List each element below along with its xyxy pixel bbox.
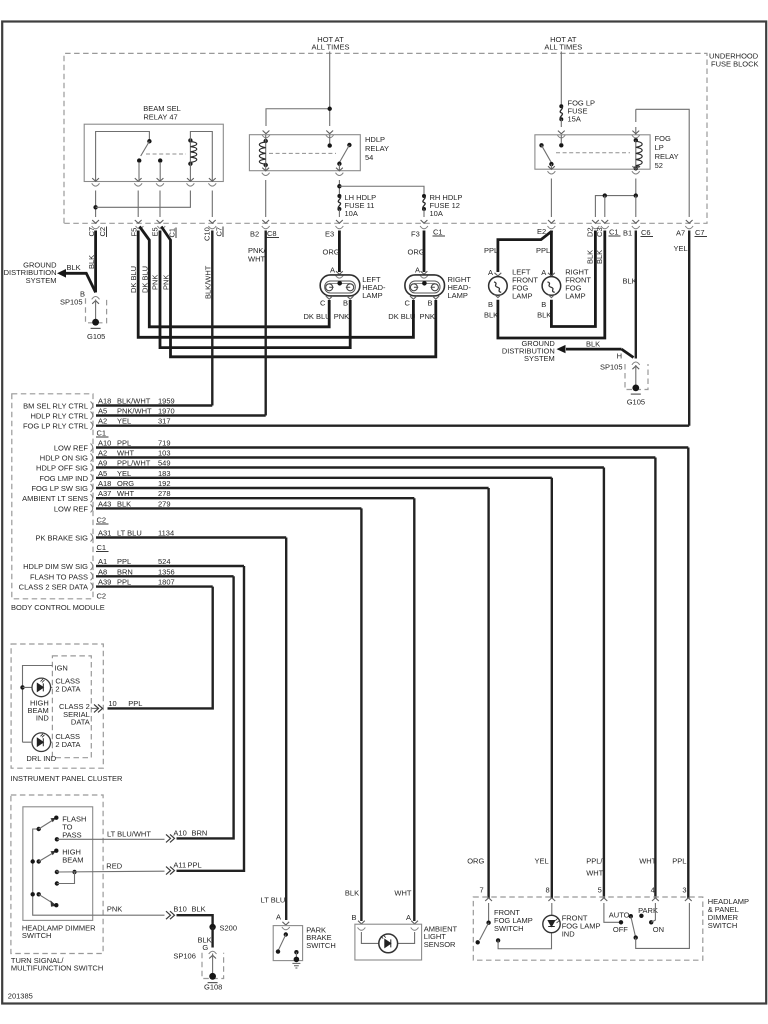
wire BLK G from S200 to ground G108 bbox=[211, 927, 213, 948]
svg-text:1970: 1970 bbox=[158, 407, 175, 416]
svg-text:HDLP OFF SIG: HDLP OFF SIG bbox=[36, 464, 88, 473]
svg-text:C1: C1 bbox=[609, 228, 619, 237]
svg-text:A7: A7 bbox=[676, 229, 685, 238]
wire BLK/WHT from C10/C7 to BCM A18 bbox=[211, 231, 213, 406]
fog switch output contact to indicator bbox=[496, 938, 500, 942]
dimmer flash-to-pass contact and arm bbox=[39, 820, 54, 830]
connector pin C10 / C7 labels (rotated) bbox=[203, 227, 224, 242]
svg-text:BLK: BLK bbox=[595, 250, 604, 264]
svg-text:YEL: YEL bbox=[535, 857, 549, 866]
BCM row A1 PPL 524 bbox=[96, 565, 244, 567]
wire PPL from E2 to both fog lamps bbox=[498, 231, 552, 273]
wire pin2 to connector F5 bbox=[137, 191, 139, 218]
wire PPL from BCM A39 to instrument cluster class 2 serial data bbox=[108, 587, 213, 709]
relay: FOG LP RELAY 52 bbox=[535, 135, 650, 169]
svg-text:A10: A10 bbox=[98, 439, 111, 448]
svg-text:BLK: BLK bbox=[117, 499, 131, 508]
svg-text:LT BLU/WHT: LT BLU/WHT bbox=[107, 830, 151, 839]
hdlp relay bottom pin sockets bbox=[262, 168, 269, 171]
svg-text:C2: C2 bbox=[98, 227, 107, 237]
svg-text:15A: 15A bbox=[568, 115, 581, 124]
beam sel relay coil riser to pin5 bbox=[190, 132, 212, 182]
svg-text:WHT: WHT bbox=[117, 489, 134, 498]
fog relay coil bbox=[634, 138, 638, 142]
svg-text:A: A bbox=[541, 268, 546, 277]
BCM signal name labels bbox=[19, 402, 89, 592]
svg-text:SENSOR: SENSOR bbox=[424, 940, 456, 949]
wire pin4 ground tie bbox=[96, 191, 191, 208]
svg-text:BLK/WHT: BLK/WHT bbox=[204, 265, 213, 299]
svg-text:ORG: ORG bbox=[323, 248, 340, 257]
svg-text:RELAY: RELAY bbox=[655, 152, 679, 161]
svg-text:DRL IND: DRL IND bbox=[26, 754, 56, 763]
svg-text:AMBIENT LT SENS: AMBIENT LT SENS bbox=[22, 494, 88, 503]
svg-text:B2: B2 bbox=[250, 230, 259, 239]
switch: FRONT FOG LAMP SWITCH bbox=[488, 903, 490, 922]
wire fuse 11 to connector E3 bbox=[338, 209, 340, 217]
BCM row A2 WHT 103 bbox=[96, 456, 655, 458]
svg-text:FOG LP RLY CTRL: FOG LP RLY CTRL bbox=[23, 422, 88, 431]
headlamp switch arm and feed from pin 3 bbox=[631, 916, 636, 937]
svg-text:192: 192 bbox=[158, 479, 171, 488]
svg-text:D2: D2 bbox=[586, 227, 595, 237]
fog relay dashed link bbox=[556, 152, 630, 154]
dimmer switch internal rail bbox=[33, 829, 93, 915]
svg-text:A2: A2 bbox=[98, 449, 107, 458]
svg-text:FLASH TO PASS: FLASH TO PASS bbox=[30, 572, 88, 581]
svg-text:FOG LP SW SIG: FOG LP SW SIG bbox=[31, 484, 88, 493]
wire PNK/WHT from B2/C8 to BCM A5 bbox=[265, 231, 267, 416]
svg-text:E3: E3 bbox=[325, 230, 334, 239]
svg-text:BLK/WHT: BLK/WHT bbox=[117, 397, 151, 406]
BCM row A18 BLK/WHT 1959 bbox=[96, 404, 212, 406]
svg-text:A: A bbox=[488, 268, 493, 277]
svg-text:LP: LP bbox=[655, 143, 664, 152]
svg-text:549: 549 bbox=[158, 459, 171, 468]
svg-text:LAMP: LAMP bbox=[565, 292, 585, 301]
svg-text:LOW REF: LOW REF bbox=[54, 444, 89, 453]
beam sel relay switch arm bbox=[147, 139, 151, 143]
svg-text:DK BLU: DK BLU bbox=[129, 266, 138, 293]
svg-text:C1: C1 bbox=[97, 429, 107, 438]
svg-text:ORG: ORG bbox=[467, 857, 484, 866]
svg-text:ON: ON bbox=[653, 925, 664, 934]
svg-text:SP105: SP105 bbox=[60, 298, 83, 307]
svg-text:B: B bbox=[428, 299, 433, 308]
svg-text:54: 54 bbox=[365, 153, 373, 162]
wire PNK from E5 to left headlamp high beam bbox=[160, 231, 350, 348]
svg-text:1807: 1807 bbox=[158, 578, 175, 587]
wire BLK from B1 to splice SP105 (right) bbox=[635, 231, 637, 359]
fuse: LH HDLP FUSE 11 10A bbox=[337, 194, 341, 211]
svg-text:HDLP DIM SW SIG: HDLP DIM SW SIG bbox=[23, 562, 88, 571]
svg-text:5: 5 bbox=[598, 886, 602, 895]
beam sel relay switch contacts bbox=[137, 158, 141, 162]
svg-text:C7: C7 bbox=[215, 227, 224, 237]
wire fog relay coil control from connector A7/C7 bbox=[635, 127, 637, 135]
svg-text:SWITCH: SWITCH bbox=[22, 931, 52, 940]
BCM row A18 ORG 192 bbox=[96, 487, 489, 489]
svg-text:317: 317 bbox=[158, 417, 171, 426]
pin brackets at dimmer box top bbox=[485, 898, 492, 901]
svg-text:LAMP: LAMP bbox=[448, 291, 468, 300]
svg-text:C10: C10 bbox=[203, 227, 212, 241]
wire BLK ground distribution arrow (right) bbox=[566, 348, 622, 351]
svg-text:A: A bbox=[415, 265, 420, 274]
svg-text:ORG: ORG bbox=[408, 248, 425, 257]
svg-text:1134: 1134 bbox=[158, 529, 174, 538]
svg-text:183: 183 bbox=[158, 469, 171, 478]
svg-text:A5: A5 bbox=[98, 407, 107, 416]
beam sel relay pin sockets and wires to connectors bbox=[92, 178, 217, 186]
svg-text:PPL: PPL bbox=[672, 857, 686, 866]
ground G105 (right) bbox=[632, 385, 639, 392]
svg-text:DK BLU: DK BLU bbox=[141, 266, 150, 293]
svg-text:ORG: ORG bbox=[117, 479, 134, 488]
svg-text:IND: IND bbox=[36, 713, 50, 722]
svg-text:YEL: YEL bbox=[674, 244, 688, 253]
svg-text:B: B bbox=[541, 300, 546, 309]
wire BLK left fog lamp ground to connector C3 bbox=[498, 231, 605, 339]
svg-text:10A: 10A bbox=[430, 209, 443, 218]
svg-text:HDLP RLY CTRL: HDLP RLY CTRL bbox=[30, 412, 88, 421]
svg-text:BEAM: BEAM bbox=[62, 856, 83, 865]
svg-text:BRN: BRN bbox=[192, 829, 208, 838]
dimmer output contact to flash-to-pass wire bbox=[55, 837, 59, 841]
wire PNK from E5 jog to right headlamp high beam bbox=[161, 227, 436, 357]
svg-text:PNK: PNK bbox=[420, 312, 435, 321]
fog relay bottom pin sockets bbox=[548, 166, 555, 169]
svg-text:FUSE BLOCK: FUSE BLOCK bbox=[711, 60, 759, 69]
svg-text:SWITCH: SWITCH bbox=[708, 921, 738, 930]
wire BLK arrow to ground distribution system bbox=[64, 273, 96, 292]
svg-text:ALL TIMES: ALL TIMES bbox=[312, 43, 350, 52]
svg-text:LT BLU: LT BLU bbox=[117, 529, 142, 538]
wire hdlp switch output to fuses bbox=[338, 180, 340, 196]
svg-text:8: 8 bbox=[546, 886, 550, 895]
wire LT BLU from BCM A31 to park brake switch A bbox=[285, 538, 287, 921]
svg-text:B1: B1 bbox=[623, 229, 632, 238]
svg-text:A18: A18 bbox=[98, 479, 111, 488]
svg-text:3: 3 bbox=[682, 886, 686, 895]
svg-text:BLK: BLK bbox=[484, 310, 498, 319]
svg-text:BLK: BLK bbox=[586, 339, 600, 348]
indicator: FRONT FOG LAMP IND bbox=[551, 903, 553, 916]
svg-text:2 DATA: 2 DATA bbox=[55, 685, 80, 694]
svg-text:DK BLU: DK BLU bbox=[304, 312, 331, 321]
svg-text:1356: 1356 bbox=[158, 567, 175, 576]
svg-text:PPL: PPL bbox=[117, 439, 131, 448]
svg-text:A37: A37 bbox=[98, 489, 111, 498]
svg-text:PPL: PPL bbox=[117, 557, 131, 566]
svg-text:A10: A10 bbox=[173, 829, 186, 838]
svg-text:PASS: PASS bbox=[62, 831, 81, 840]
svg-text:C6: C6 bbox=[641, 228, 651, 237]
svg-text:SP106: SP106 bbox=[173, 952, 196, 961]
wire BLK right fog lamp ground to connector D2 bbox=[551, 231, 595, 327]
svg-text:A11: A11 bbox=[173, 861, 186, 870]
svg-text:FOG LMP IND: FOG LMP IND bbox=[39, 474, 88, 483]
svg-text:MULTIFUNCTION SWITCH: MULTIFUNCTION SWITCH bbox=[11, 964, 103, 973]
svg-text:WHT: WHT bbox=[586, 869, 603, 878]
svg-text:E2: E2 bbox=[537, 227, 546, 236]
svg-text:IGN: IGN bbox=[55, 664, 68, 673]
svg-text:IND: IND bbox=[562, 930, 576, 939]
module: BODY CONTROL MODULE dashed box bbox=[12, 394, 93, 599]
svg-text:A1: A1 bbox=[98, 557, 107, 566]
indicator: HIGH BEAM IND bbox=[20, 685, 24, 689]
svg-text:PNK: PNK bbox=[162, 275, 171, 290]
svg-text:PK BRAKE SIG: PK BRAKE SIG bbox=[35, 534, 88, 543]
switch: HEADLAMP DIMMER SWITCH box bbox=[23, 807, 93, 921]
svg-text:PPL: PPL bbox=[484, 246, 498, 255]
svg-text:LAMP: LAMP bbox=[362, 291, 382, 300]
lamp: LEFT FRONT FOG LAMP bbox=[488, 268, 507, 309]
svg-text:RELAY: RELAY bbox=[365, 144, 389, 153]
svg-text:AUTO: AUTO bbox=[609, 910, 630, 919]
fuse: RH HDLP FUSE 12 10A bbox=[422, 194, 426, 211]
svg-text:279: 279 bbox=[158, 499, 171, 508]
wire YEL from A7/C7 to BCM A2 bbox=[688, 231, 690, 426]
svg-text:A39: A39 bbox=[98, 578, 111, 587]
svg-text:PPL/: PPL/ bbox=[586, 857, 603, 866]
svg-text:52: 52 bbox=[655, 161, 663, 170]
svg-text:BRN: BRN bbox=[117, 567, 133, 576]
wire BLK from C7/C2 to ground splice bbox=[94, 231, 97, 293]
svg-text:A31: A31 bbox=[98, 529, 111, 538]
svg-text:2 DATA: 2 DATA bbox=[55, 740, 80, 749]
switch: HEADLAMP &amp; PANEL DIMMER SWITCH dashed box bbox=[473, 897, 703, 960]
wire ORG from E3 to left headlamp pin A bbox=[338, 231, 341, 273]
wire WHT from BCM A37 to ambient light sensor A bbox=[413, 498, 415, 921]
hdlp relay switch bbox=[329, 135, 331, 144]
svg-text:SWITCH: SWITCH bbox=[306, 941, 336, 950]
BCM row A2 YEL 317 bbox=[96, 425, 689, 427]
dimmer bottom arm bbox=[39, 894, 54, 904]
wire hdlp coil to connector B2/C8 bbox=[265, 180, 267, 217]
svg-text:C1: C1 bbox=[433, 228, 443, 237]
dimmer red output contacts bbox=[55, 870, 59, 874]
wire: fuse to FOG LP relay bbox=[560, 119, 562, 127]
lamp: LEFT HEADLAMP bbox=[320, 265, 360, 307]
svg-text:WHT: WHT bbox=[394, 889, 411, 898]
svg-text:7: 7 bbox=[480, 886, 484, 895]
svg-text:524: 524 bbox=[158, 557, 171, 566]
svg-text:HDLP ON SIG: HDLP ON SIG bbox=[40, 454, 88, 463]
svg-text:S200: S200 bbox=[220, 924, 238, 933]
svg-text:A43: A43 bbox=[98, 499, 111, 508]
splice S200 bbox=[209, 924, 215, 930]
svg-text:PPL/WHT: PPL/WHT bbox=[117, 459, 151, 468]
wire pin3 to connector E5 bbox=[159, 191, 161, 218]
wire DK BLU from F5 to right headlamp low beam bbox=[138, 231, 413, 338]
wire YEL from BCM A5 to dimmer switch pin 8 bbox=[551, 478, 553, 898]
svg-text:WHT: WHT bbox=[117, 449, 134, 458]
connector pin C7 / C2 labels (rotated) bbox=[87, 227, 107, 238]
svg-text:DK BLU: DK BLU bbox=[388, 312, 415, 321]
wire PPL from BCM A1 to dimmer switch connector A11 bbox=[177, 566, 245, 871]
svg-text:A8: A8 bbox=[98, 567, 107, 576]
indicator: DRL IND bbox=[32, 733, 51, 752]
wire PPL/WHT from BCM A9 to dimmer switch pin 5 bbox=[603, 468, 605, 899]
junction at HOT branch bbox=[328, 107, 332, 111]
wire BRN from BCM A8 to dimmer switch connector A10 bbox=[177, 576, 234, 838]
svg-text:DATA: DATA bbox=[71, 718, 90, 727]
svg-text:WHT: WHT bbox=[248, 255, 265, 264]
svg-text:PPL: PPL bbox=[128, 699, 142, 708]
svg-text:CLASS 2 SER DATA: CLASS 2 SER DATA bbox=[19, 583, 88, 592]
svg-text:A: A bbox=[276, 913, 281, 922]
BCM row A8 BRN 1356 bbox=[96, 575, 234, 577]
svg-text:BLK: BLK bbox=[623, 277, 637, 286]
wire DK BLU from F5 jog to left headlamp low beam bbox=[140, 227, 330, 327]
wire ORG from BCM A18 to dimmer switch pin 7 bbox=[487, 488, 489, 898]
ground G108 bbox=[209, 973, 216, 980]
svg-text:G105: G105 bbox=[87, 332, 105, 341]
wire: HOT feed to HDLP relay bbox=[329, 52, 331, 127]
svg-text:PNK/WHT: PNK/WHT bbox=[117, 407, 152, 416]
svg-text:G105: G105 bbox=[627, 398, 645, 407]
beam sel relay coil bbox=[188, 138, 192, 142]
label CLASS 2 SERIAL DATA bbox=[59, 702, 90, 727]
svg-text:PNK: PNK bbox=[151, 275, 160, 290]
wire: HOT feed to FOG LP fuse bbox=[560, 52, 562, 107]
svg-text:BLK: BLK bbox=[537, 310, 551, 319]
svg-text:B10: B10 bbox=[173, 905, 186, 914]
svg-text:1959: 1959 bbox=[158, 397, 175, 406]
svg-text:10A: 10A bbox=[345, 209, 358, 218]
svg-text:A9: A9 bbox=[98, 459, 107, 468]
svg-text:103: 103 bbox=[158, 449, 171, 458]
svg-text:HDLP: HDLP bbox=[365, 135, 385, 144]
switch assembly: TURN SIGNAL / MULTIFUNCTION SWITCH dashed box bbox=[11, 795, 103, 954]
wire PPL from BCM A10 to dimmer switch pin 3 bbox=[687, 448, 689, 899]
svg-text:RELAY 47: RELAY 47 bbox=[143, 112, 177, 121]
svg-text:OFF: OFF bbox=[613, 925, 628, 934]
svg-text:C2: C2 bbox=[97, 592, 107, 601]
wire BLK from BCM A43 to ambient light sensor B bbox=[360, 508, 362, 921]
wire fog relay coil low side to ground connectors D2 C3 B1 bbox=[595, 179, 635, 218]
svg-text:BM SEL RLY CTRL: BM SEL RLY CTRL bbox=[23, 402, 88, 411]
svg-text:G108: G108 bbox=[204, 983, 222, 992]
svg-text:BLK: BLK bbox=[192, 905, 206, 914]
relay: HDLP RELAY 54 bbox=[249, 135, 360, 171]
wire ORG from F3 to right headlamp pin A bbox=[423, 231, 426, 273]
svg-text:LOW REF: LOW REF bbox=[54, 504, 89, 513]
fog relay switch bbox=[559, 143, 563, 147]
svg-text:SYSTEM: SYSTEM bbox=[524, 354, 555, 363]
BCM row A5 PNK/WHT 1970 bbox=[96, 414, 266, 416]
svg-text:PPL: PPL bbox=[117, 578, 131, 587]
BCM pin brackets at box edge bbox=[91, 402, 93, 591]
wire WHT from BCM A2 to dimmer switch pin 4 bbox=[654, 458, 656, 899]
inline connector 10 on class 2 wire bbox=[91, 707, 98, 709]
svg-text:201385: 201385 bbox=[8, 992, 33, 1001]
BCM row A5 YEL 183 bbox=[96, 477, 552, 479]
BCM row A37 WHT 278 bbox=[96, 497, 414, 499]
svg-text:BODY CONTROL MODULE: BODY CONTROL MODULE bbox=[11, 603, 105, 612]
svg-text:BLK: BLK bbox=[586, 250, 595, 264]
BCM row A9 PPL/WHT 549 bbox=[96, 466, 604, 468]
module: INSTRUMENT PANEL CLUSTER dashed box bbox=[11, 644, 103, 768]
svg-text:RED: RED bbox=[106, 862, 122, 871]
svg-text:A5: A5 bbox=[98, 469, 107, 478]
svg-text:BLK: BLK bbox=[67, 263, 81, 272]
svg-text:A2: A2 bbox=[98, 417, 107, 426]
lamp: RIGHT FRONT FOG LAMP bbox=[541, 268, 560, 309]
svg-text:A18: A18 bbox=[98, 397, 111, 406]
svg-text:SP105: SP105 bbox=[600, 363, 623, 372]
svg-text:PNK: PNK bbox=[334, 312, 349, 321]
svg-text:SYSTEM: SYSTEM bbox=[26, 276, 57, 285]
svg-text:B: B bbox=[488, 300, 493, 309]
headlamp switch AUTO/OFF/PARK/ON contacts bbox=[604, 903, 619, 922]
svg-text:B: B bbox=[352, 913, 357, 922]
underhood fuse block dashed boundary bbox=[64, 53, 707, 223]
svg-text:H: H bbox=[617, 352, 622, 361]
svg-text:LT BLU: LT BLU bbox=[261, 896, 286, 905]
svg-text:WHT: WHT bbox=[639, 857, 656, 866]
svg-text:FOG: FOG bbox=[655, 134, 671, 143]
svg-text:278: 278 bbox=[158, 489, 171, 498]
wire fuse 12 to connector F3 bbox=[423, 209, 425, 217]
svg-text:C: C bbox=[405, 299, 411, 308]
svg-text:SWITCH: SWITCH bbox=[494, 924, 524, 933]
svg-text:PPL: PPL bbox=[188, 861, 202, 870]
hdlp relay coil bbox=[264, 139, 268, 143]
svg-text:719: 719 bbox=[158, 439, 171, 448]
svg-text:BLK: BLK bbox=[345, 889, 359, 898]
wire pin5 to connector C10/C7 bbox=[211, 191, 213, 218]
svg-text:C8: C8 bbox=[267, 229, 277, 238]
svg-text:INSTRUMENT PANEL CLUSTER: INSTRUMENT PANEL CLUSTER bbox=[11, 774, 124, 783]
wire fog relay switch output to connector E2 bbox=[550, 179, 552, 218]
svg-text:A: A bbox=[330, 265, 335, 274]
svg-text:C7: C7 bbox=[695, 228, 705, 237]
svg-text:A: A bbox=[406, 913, 411, 922]
beam sel relay internal rail pin1 to switch anchor bbox=[96, 132, 150, 182]
svg-text:LAMP: LAMP bbox=[512, 292, 532, 301]
BCM row A39 PPL 1807 bbox=[96, 585, 213, 587]
ground G105 (left) bbox=[92, 319, 99, 326]
svg-text:E5: E5 bbox=[151, 227, 160, 236]
svg-text:4: 4 bbox=[651, 886, 655, 895]
lamp: RIGHT HEADLAMP bbox=[405, 265, 445, 307]
svg-text:PNK: PNK bbox=[107, 905, 122, 914]
svg-text:C1: C1 bbox=[97, 543, 107, 552]
svg-text:C2: C2 bbox=[97, 516, 107, 525]
svg-text:YEL: YEL bbox=[117, 469, 131, 478]
wire pin1 to connector C7/C2 with ground tie junction bbox=[95, 191, 97, 218]
BCM row A10 PPL 719 bbox=[96, 446, 688, 448]
svg-text:B: B bbox=[343, 299, 348, 308]
hdlp relay dashed link bbox=[269, 152, 336, 154]
fuse: FOG LP FUSE 15A bbox=[559, 104, 563, 121]
svg-text:10: 10 bbox=[108, 699, 116, 708]
beam sel relay actuating dashed link bbox=[146, 153, 186, 155]
svg-text:PPL: PPL bbox=[536, 246, 550, 255]
svg-text:YEL: YEL bbox=[117, 417, 131, 426]
svg-text:F3: F3 bbox=[411, 230, 420, 239]
dimmer high beam contact and arm bbox=[39, 853, 54, 862]
BCM row A43 BLK 279 bbox=[96, 507, 361, 509]
BCM row A31 LT BLU 1134 bbox=[96, 536, 286, 538]
svg-text:G: G bbox=[202, 943, 208, 952]
svg-text:BLK: BLK bbox=[87, 255, 96, 269]
svg-text:C: C bbox=[320, 299, 326, 308]
svg-text:ALL TIMES: ALL TIMES bbox=[544, 43, 582, 52]
